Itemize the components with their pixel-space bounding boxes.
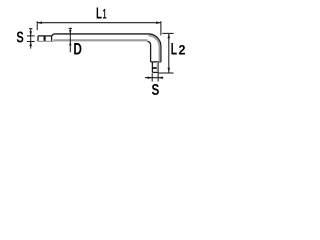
svg-text:1: 1 (103, 6, 107, 21)
svg-text:S: S (16, 30, 23, 47)
svg-text:S: S (152, 82, 160, 99)
svg-text:D: D (73, 41, 82, 59)
svg-text:L: L (171, 41, 177, 59)
svg-text:2: 2 (179, 42, 186, 58)
svg-text:L: L (96, 5, 102, 22)
